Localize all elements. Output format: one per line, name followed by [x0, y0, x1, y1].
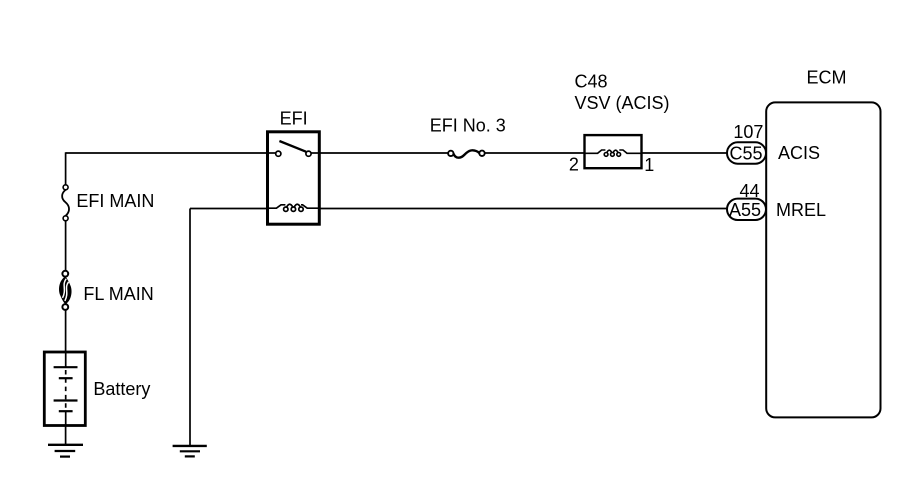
- svg-text:1: 1: [644, 155, 654, 175]
- fuse EFI No. 3: [448, 150, 485, 157]
- relay switch arm: [279, 141, 306, 152]
- wire: VSV to ECM connector C55: [642, 152, 728, 154]
- svg-text:EFI MAIN: EFI MAIN: [76, 191, 154, 211]
- wire: top horizontal, battery branch to EFI relay: [66, 152, 268, 154]
- svg-text:VSV (ACIS): VSV (ACIS): [575, 93, 670, 113]
- svg-text:C55: C55: [730, 143, 763, 163]
- VSV coil: [585, 150, 642, 156]
- ground: relay coil ground: [173, 446, 207, 457]
- wire: relay coil ground branch to relay: [190, 208, 268, 210]
- svg-text:ECM: ECM: [807, 68, 847, 88]
- fusible link FL MAIN: [59, 271, 72, 310]
- fuse EFI MAIN: [62, 185, 69, 221]
- connector C55: [727, 142, 766, 163]
- svg-text:ACIS: ACIS: [778, 143, 820, 163]
- battery: [44, 352, 85, 426]
- connector A55: [727, 199, 766, 220]
- wire: battery to ground: [65, 426, 67, 445]
- svg-text:Battery: Battery: [93, 379, 150, 399]
- svg-text:A55: A55: [729, 200, 761, 220]
- relay switch contact terminals: [268, 151, 320, 156]
- wire: relay coil to ECM connector A55: [319, 208, 727, 210]
- ECM box: [766, 102, 880, 417]
- svg-text:MREL: MREL: [776, 200, 826, 220]
- svg-text:EFI No. 3: EFI No. 3: [430, 116, 506, 136]
- relay EFI box: [268, 132, 320, 224]
- wire: left vertical, between EFI MAIN and FL MAIN: [65, 221, 67, 271]
- wire: EFI No. 3 fuse to VSV: [485, 152, 585, 154]
- svg-text:C48: C48: [575, 71, 608, 91]
- wire: EFI relay to EFI No. 3 fuse: [319, 152, 448, 154]
- svg-text:EFI: EFI: [280, 108, 308, 128]
- svg-text:107: 107: [733, 122, 763, 142]
- relay coil: [268, 204, 320, 211]
- svg-text:2: 2: [569, 155, 579, 175]
- VSV C48 box: [585, 135, 642, 168]
- wire: left vertical, FL MAIN to battery: [65, 310, 67, 352]
- wire: left vertical, top corner to EFI MAIN fuse: [65, 152, 67, 185]
- svg-text:FL MAIN: FL MAIN: [83, 284, 153, 304]
- wire: relay coil branch vertical to ground: [189, 209, 191, 446]
- ground: battery ground: [48, 445, 83, 457]
